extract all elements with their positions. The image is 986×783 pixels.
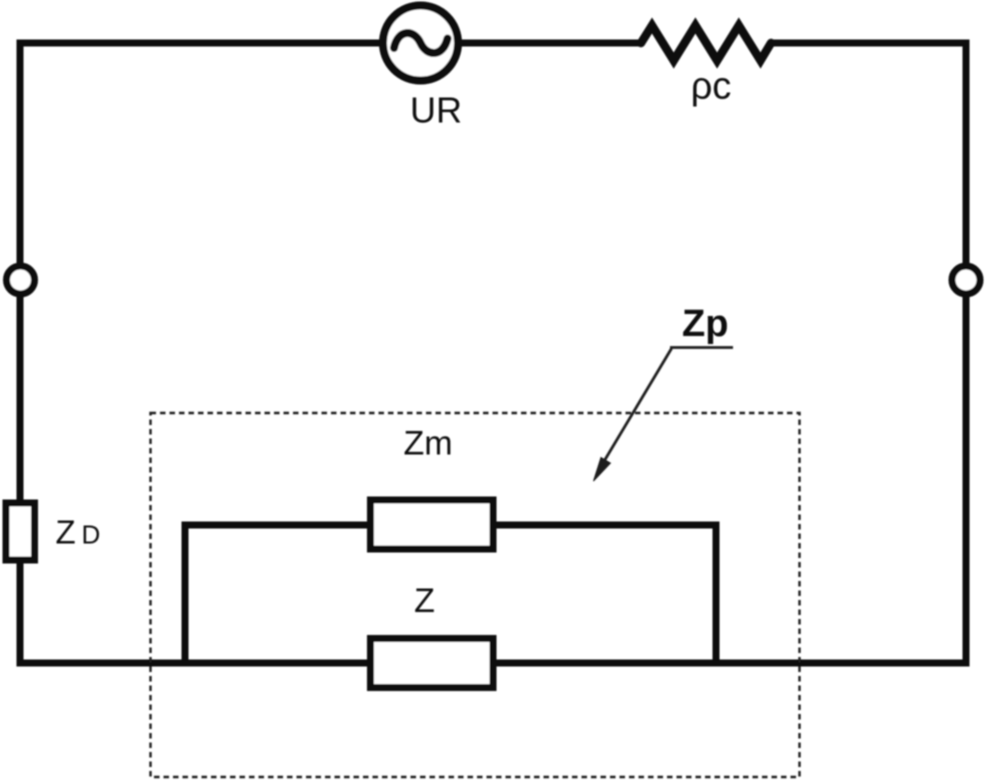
impedance Z box (371, 639, 494, 688)
svg-text:Zp: Zp (682, 303, 728, 345)
wire top-left segment (20, 40, 641, 47)
resistor ρc zigzag (641, 26, 771, 61)
wire right vertical (963, 40, 970, 664)
impedance Zm box (371, 500, 494, 549)
svg-text:Zm: Zm (403, 425, 452, 463)
impedance ZD box (6, 503, 35, 560)
svg-text:ρc: ρc (691, 66, 732, 108)
wire top-right segment (771, 40, 966, 47)
wire bottom (17, 660, 970, 667)
svg-text:Z: Z (414, 582, 435, 620)
terminal node left (open circle) (7, 266, 35, 294)
leader line to Zp region (600, 349, 672, 469)
svg-text:Z: Z (56, 514, 76, 551)
source UR (AC source circle) (383, 6, 458, 81)
leader underline for Zp (670, 346, 733, 349)
label ZD (56, 514, 101, 551)
svg-text:D: D (82, 520, 101, 550)
arrowhead (594, 458, 611, 482)
wire left vertical (17, 40, 24, 664)
svg-text:UR: UR (410, 90, 462, 131)
terminal node right (open circle) (952, 266, 980, 294)
wire inner loop (left vertical, top branch, right vertical) (185, 525, 716, 663)
dashed box Zp boundary (151, 413, 800, 777)
source UR sine symbol (394, 33, 448, 53)
